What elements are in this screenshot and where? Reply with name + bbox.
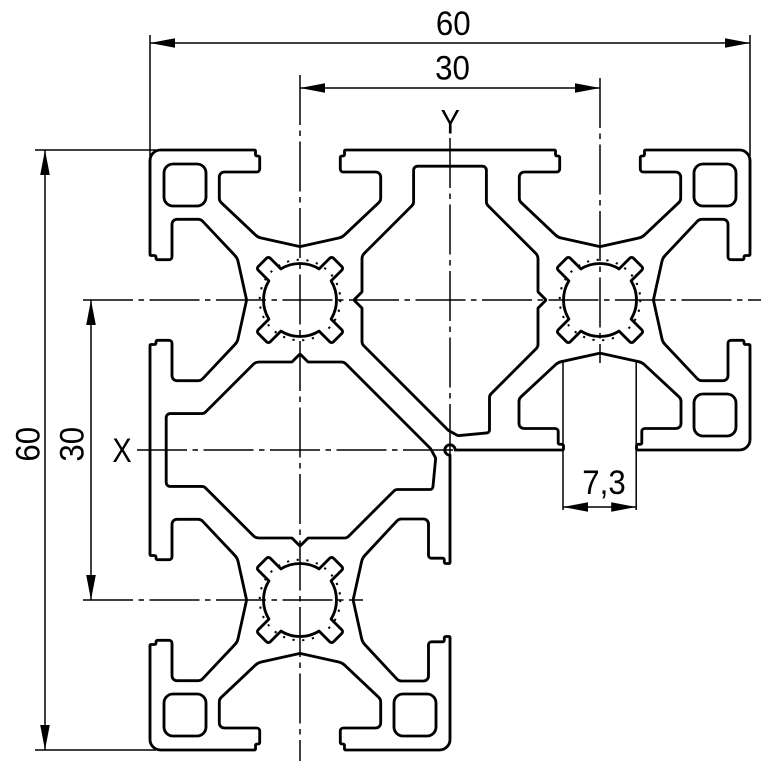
dim 30 top arrows: [300, 83, 325, 93]
corner chamber hole bottom-middle: [394, 694, 436, 736]
svg-text:7,3: 7,3: [582, 463, 625, 502]
dim 60 top: extension lines: [149, 35, 151, 156]
svg-text:X: X: [112, 431, 131, 470]
dim 60 left arrows: [40, 150, 50, 175]
dim 7,3: extension lines: [562, 362, 564, 510]
dim 60 top: dimension line: [150, 42, 750, 44]
svg-text:60: 60: [8, 427, 47, 462]
centerline vertical x=300: [299, 75, 301, 761]
dim 30 left: dimension line: [90, 300, 92, 600]
corner chamber hole bottom-left: [164, 694, 206, 736]
X axis centerline y=450: [137, 449, 540, 451]
centerline horizontal y=300: [83, 299, 761, 301]
Y axis centerline x=450: [449, 138, 451, 540]
core screw channel top-right: [557, 257, 642, 342]
dim 30 top: dimension line: [300, 87, 600, 89]
thread circle dotted bottom-left: [260, 560, 341, 641]
core screw channel bottom-left: [257, 557, 342, 642]
thread circle dotted top-right: [560, 260, 641, 341]
centerline horizontal y=600: [83, 599, 363, 601]
outer profile contour: [150, 150, 750, 750]
thread circle dotted top-left: [260, 260, 341, 341]
dim 60 left: dimension line: [44, 150, 46, 750]
corner chamber hole right-middle: [694, 394, 736, 436]
dim 60 left: extension lines: [35, 149, 156, 151]
internal cavity between top cells: [354, 166, 545, 435]
svg-text:Y: Y: [441, 102, 460, 141]
svg-text:30: 30: [52, 427, 91, 462]
core screw channel top-left: [257, 257, 342, 342]
dim 7,3: dimension line: [563, 506, 636, 508]
svg-text:60: 60: [436, 4, 471, 43]
corner chamber hole top-left: [164, 164, 206, 206]
dim 7,3 arrows: [563, 502, 588, 512]
dim 30 left arrows: [86, 300, 96, 325]
corner chamber hole top-right: [694, 164, 736, 206]
centerline vertical x=600: [599, 78, 601, 363]
internal cavity between left cells: [166, 354, 435, 545]
dim 60 top arrows: [150, 38, 175, 48]
svg-text:30: 30: [435, 48, 470, 87]
